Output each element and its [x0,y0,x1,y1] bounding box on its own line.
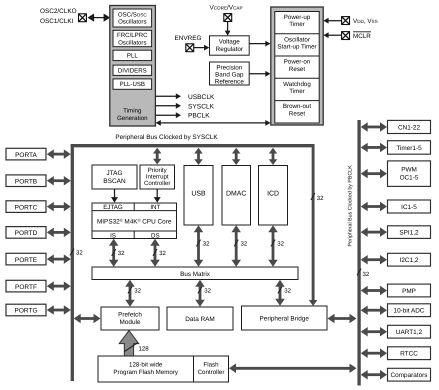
label 32 on PBCLK bus [357,269,370,278]
wire PORTG to ports bus [47,305,71,315]
pad VCORE/VCAP pin [224,14,232,22]
svg-text:Oscillator: Oscillator [284,36,310,43]
wire PORTD to ports bus [47,228,71,238]
box Power-up Timer [284,14,311,28]
wire VCORE to voltage regulator [225,21,231,35]
svg-text:DS: DS [151,232,160,239]
box PORTA [6,148,46,160]
svg-text:32: 32 [204,288,211,295]
wire OSC pin to oscillators [88,14,111,22]
label 32 on SYSCLK drop [311,193,324,202]
svg-text:32: 32 [363,271,370,278]
svg-text:PWM: PWM [401,166,417,173]
box CN1-22 [388,120,431,133]
svg-text:ENVREG: ENVREG [175,35,202,42]
svg-text:32: 32 [159,250,166,257]
svg-text:IC1-5: IC1-5 [401,204,417,211]
wire IC1-5 to PBCLK bus [361,202,387,212]
wire 10-bit ADC to PBCLK bus [361,305,387,315]
svg-text:Timing: Timing [123,108,142,115]
svg-text:OC1-5: OC1-5 [400,174,419,181]
box Timer1-5 [388,141,431,155]
label 32 on DMAC bus [234,240,248,248]
box FRC/LPRC Oscillators [113,30,152,46]
svg-text:Reset: Reset [289,66,305,73]
svg-text:Oscillators: Oscillators [118,39,146,46]
svg-text:USBCLK: USBCLK [188,94,215,101]
wire PORTA to ports bus [47,149,71,159]
wire PMP to PBCLK bus [361,286,387,296]
box DIVIDERS [113,65,152,75]
box Comparators [388,368,431,381]
box Peripheral Bridge [242,306,328,330]
wire IS/DS row divider [92,231,177,239]
wire divider 2 [275,55,319,57]
wire PORTF to ports bus [47,281,71,291]
svg-text:USB: USB [191,190,206,197]
svg-text:32: 32 [76,250,83,257]
wire UART1,2 to PBCLK bus [361,327,387,337]
svg-text:Reset: Reset [289,110,305,117]
box PLL-USB [113,79,152,89]
pad ENVREG pin [186,44,194,52]
label Peripheral Bus Clocked by SYSCLK [115,134,218,141]
svg-text:PORTE: PORTE [15,257,38,264]
label 32 on DS bus [153,249,167,257]
wire ports bus (left vertical) [71,144,74,381]
node MCLR label [353,32,371,40]
wire band gap to power-on reset [249,71,270,77]
svg-text:MCLR: MCLR [353,33,371,40]
label EJTAG [103,204,123,211]
svg-text:OSC/SOSC: OSC/SOSC [118,11,148,18]
wire VDD to power-up timer [323,18,341,24]
svg-text:Timer: Timer [289,88,305,95]
svg-text:Controller: Controller [198,369,225,376]
box Power-on Reset [284,59,311,73]
box I2C1,2 [388,253,431,266]
svg-text:PORTF: PORTF [15,284,37,291]
svg-text:Prefetch: Prefetch [118,311,142,318]
label 32 on IS bus [112,249,126,257]
svg-text:Power-on: Power-on [284,59,311,66]
svg-text:SPI1,2: SPI1,2 [399,229,419,236]
box PLL [113,50,152,60]
wire SPI1,2 to PBCLK bus [361,227,387,237]
box Priority Interrupt Controller U-PIC [140,165,175,189]
svg-text:Controller: Controller [144,180,170,187]
wire IS to bus matrix [109,239,119,267]
box PORTC [6,201,46,213]
svg-text:PORTD: PORTD [15,230,38,237]
svg-text:Watchdog: Watchdog [283,81,311,88]
wire SYSCLK bus to ICD [269,148,278,165]
box Prefetch Module [101,307,159,330]
label 32 on ports bus [70,249,83,257]
box PORTG [6,304,46,316]
svg-text:Bus Matrix: Bus Matrix [180,271,211,278]
svg-text:32: 32 [134,288,141,295]
svg-text:BSCAN: BSCAN [103,178,126,185]
svg-text:Reference: Reference [215,79,245,86]
box Watchdog Timer [283,81,311,95]
svg-text:Peripheral Bridge: Peripheral Bridge [260,316,310,323]
svg-text:I2C1,2: I2C1,2 [400,257,419,264]
box Flash Controller [194,356,229,382]
wire MCLR to oscillator start-up timer [323,32,341,38]
box RTCC [388,347,431,360]
label 32 on data ram bus [198,287,212,295]
wire SYSCLK bus to USB [194,148,203,165]
svg-text:RTCC: RTCC [400,351,418,358]
svg-text:Peripheral Bus Clocked by SYSC: Peripheral Bus Clocked by SYSCLK [115,134,218,141]
wire DS to bus matrix [150,239,160,267]
wire divider 3 [275,77,319,79]
svg-text:ICD: ICD [267,190,279,197]
svg-text:128: 128 [139,346,150,353]
svg-text:PLL-USB: PLL-USB [120,81,145,88]
box Brown-out Reset [283,103,311,117]
svg-text:PORTA: PORTA [15,152,37,159]
svg-text:32: 32 [203,241,210,248]
wire timing to resets (bidirectional) [156,120,271,126]
svg-text:PLL: PLL [127,53,138,60]
wire SYSCLK bus top [71,144,315,147]
svg-text:MIPS32® M4K® CPU Core: MIPS32® M4K® CPU Core [97,217,172,226]
svg-text:OSC1/CLKI: OSC1/CLKI [40,18,74,25]
wire ICD to bus matrix [268,225,278,267]
node VDD VSS label [353,18,378,25]
svg-text:UART1,2: UART1,2 [396,329,423,336]
svg-text:Precision: Precision [216,64,242,71]
box PORTB [6,175,46,187]
svg-text:32: 32 [241,241,248,248]
svg-text:Brown-out: Brown-out [283,103,311,110]
wire peripheral bridge to PBCLK bus [328,314,357,324]
svg-text:IS: IS [110,232,116,239]
pad VDD VSS pins [342,17,350,25]
label 32 on USB bus [196,240,210,248]
label 32 on prefetch bus [128,287,142,295]
wire PIC to INT [154,189,161,203]
wire EJTAG/INT row divider [92,203,177,211]
box DMAC [222,166,251,226]
svg-text:Data RAM: Data RAM [185,316,214,323]
box IC1-5 [388,200,431,213]
svg-text:PBCLK: PBCLK [188,113,210,120]
box JTAG BSCAN [92,165,137,189]
label IS [110,232,116,239]
box Data RAM [167,307,233,330]
svg-text:JTAG: JTAG [106,170,122,177]
svg-text:Band Gap: Band Gap [215,71,244,78]
box USB [184,166,213,226]
wire Comparators to PBCLK bus [361,370,387,380]
wire USBCLK [156,93,215,100]
box CPU composite outline [92,203,177,239]
wire flash to prefetch (128-bit block arrow) [119,331,139,357]
box Voltage Regulator U-VREG [210,36,250,55]
wire flash controller to PBCLK bus [229,364,357,374]
node VCORE/VCAP pin label [209,4,242,11]
svg-text:Timer1-5: Timer1-5 [396,145,422,152]
svg-text:OSC2/CLKO: OSC2/CLKO [40,8,77,15]
box 10-bit ADC [388,304,431,317]
box MIPS32 M4K CPU Core [97,217,172,226]
svg-text:DMAC: DMAC [226,190,246,197]
label 32 on ICD bus [271,240,285,248]
label 128 on flash bus [125,343,150,353]
wire SYSCLK bus to interrupt controller [153,148,162,165]
svg-text:Regulator: Regulator [216,46,243,53]
label Timing Generation [117,108,148,123]
svg-text:FRC/LPRC: FRC/LPRC [117,32,148,39]
svg-text:CN1-22: CN1-22 [398,124,420,131]
svg-text:PORTC: PORTC [15,204,38,211]
wire ENVREG to voltage regulator [194,45,210,51]
svg-text:Generation: Generation [117,115,148,122]
box Bus Matrix [92,267,298,280]
svg-text:INT: INT [150,204,160,211]
wire bus matrix to prefetch [125,280,135,307]
node ENVREG pin label [175,35,202,42]
box PWM OC1-5 [388,161,431,187]
svg-text:Comparators: Comparators [391,372,428,379]
svg-text:32: 32 [317,195,324,202]
label 32 on bridge bus [278,287,292,295]
svg-text:Timer: Timer [289,21,305,28]
svg-text:32: 32 [118,250,125,257]
svg-text:DIVIDERS: DIVIDERS [118,67,147,74]
wire RTCC to PBCLK bus [361,348,387,358]
wire ports bus to prefetch [74,314,101,324]
svg-text:Voltage: Voltage [219,38,241,45]
node OSC2/CLKO OSC1/CLKI pin labels [40,8,77,25]
wire SYSCLK bus to DMAC [232,148,241,165]
svg-text:32: 32 [284,288,291,295]
wire bus matrix to peripheral bridge [275,280,285,306]
wire PORTB to ports bus [47,176,71,186]
box SPI1,2 [388,226,431,239]
wire PWM OC1-5 to PBCLK bus [361,169,387,179]
svg-text:Oscillators: Oscillators [118,19,146,26]
box PORTF [6,280,46,292]
box Oscillator Start-up Timer [277,36,316,50]
label INT [150,204,160,211]
wire divider 1 [275,33,319,35]
svg-text:128-bit wide: 128-bit wide [129,361,163,368]
svg-text:PORTG: PORTG [15,308,38,315]
svg-text:VDD, VSS: VDD, VSS [353,18,378,25]
svg-text:10-bit ADC: 10-bit ADC [394,308,425,315]
box PMP [388,284,431,297]
wire JTAG to EJTAG [111,189,118,203]
wire PBCLK [156,112,211,119]
wire CN1-22 to PBCLK bus [361,122,387,132]
svg-text:Flash: Flash [203,361,219,368]
box OSC/Sosc Oscillators [113,9,152,27]
wire SYSCLK bus right drop to peripheral bridge [309,144,318,306]
box 128-bit wide Program Flash Memory [98,356,194,382]
wire bus matrix to data ram [195,280,205,307]
box ICD [259,166,288,226]
label Peripheral Bus Clocked by PBCLK (vertical) [348,165,354,247]
svg-text:32: 32 [277,241,284,248]
svg-text:PMP: PMP [402,288,416,295]
svg-text:Power-up: Power-up [284,14,311,21]
box PORTD [6,227,46,239]
block Timing Generation (gray) [110,6,156,127]
wire voltage regulator to oscillator start-up timer [249,41,270,47]
wire divider 4 [275,100,319,102]
pad OSC1/OSC2 pin [79,14,87,22]
block reset generation (gray) [271,7,323,125]
wire SYSCLK [156,103,215,110]
wire Timer1-5 to PBCLK bus [361,143,387,153]
wire DMAC to bus matrix [231,225,241,267]
box UART1,2 [388,325,431,338]
svg-text:PORTB: PORTB [15,178,37,185]
svg-text:Module: Module [120,319,141,326]
svg-text:VCORE/VCAP: VCORE/VCAP [209,4,242,11]
wire PBCLK peripheral bus (right vertical) [357,120,360,386]
box PORTE [6,253,46,265]
wire PORTE to ports bus [47,254,71,264]
wire USB to bus matrix [194,225,204,267]
wire I2C1,2 to PBCLK bus [361,255,387,265]
pad MCLR pin [342,32,350,40]
svg-text:EJTAG: EJTAG [103,204,123,211]
label DS [151,232,160,239]
svg-text:Program Flash Memory: Program Flash Memory [113,369,179,376]
svg-text:SYSCLK: SYSCLK [188,103,215,110]
box reset stack outline [275,12,319,124]
box Precision Band Gap Reference [210,62,250,86]
svg-text:Start-up Timer: Start-up Timer [277,44,316,51]
svg-text:Peripheral Bus Clocked by PBCL: Peripheral Bus Clocked by PBCLK [348,165,354,247]
wire PORTC to ports bus [47,202,71,212]
